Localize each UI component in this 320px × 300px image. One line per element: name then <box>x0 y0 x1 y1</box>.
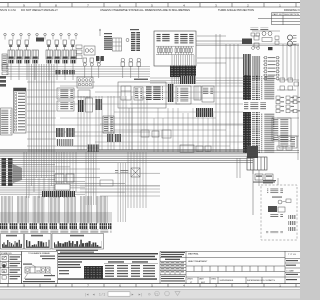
svg-text:THIRD ANGLE PROJECTION: THIRD ANGLE PROJECTION <box>218 8 254 12</box>
beacon lamps E1 E2 <box>262 32 266 36</box>
tolerance inner table <box>160 262 186 275</box>
cluster terminal bars <box>146 86 163 100</box>
stack labels <box>104 33 112 34</box>
svg-text:DATE: DATE <box>199 277 204 280</box>
wire drops into bottom connector row <box>2 196 108 224</box>
connector CN1 stacked bars <box>104 36 112 50</box>
fuse list box FL1 tall <box>14 88 27 133</box>
option box header text <box>267 188 283 194</box>
border frame outer bottom line <box>0 286 300 288</box>
fuse box label text right column <box>175 33 194 44</box>
right component box lower <box>279 136 297 148</box>
vertical drops from relay cluster to bundle <box>154 108 213 152</box>
mid boxes lower band <box>100 180 113 186</box>
svg-text:SUPERSEDES: SUPERSEDES <box>220 280 234 282</box>
relay list box left edge <box>1 108 13 135</box>
diode pack D1 <box>254 36 259 40</box>
relay bank rows right side <box>263 56 280 80</box>
ECU connector strip upper left <box>243 54 251 80</box>
vertical bundle right of web <box>128 152 146 208</box>
svg-text:|◄: |◄ <box>85 292 89 296</box>
left edge connector stack B dark <box>8 158 13 186</box>
horizontal wires middle of sheet <box>60 86 243 146</box>
bottom zone numbers <box>23 284 281 288</box>
alternator G1 with label <box>131 168 140 177</box>
label air conditioning <box>250 28 270 32</box>
ECU gap small text <box>244 102 266 110</box>
component box group right of fuse list <box>57 88 74 99</box>
connector hatch second row right group <box>55 70 75 75</box>
left auxiliary box <box>2 54 7 69</box>
connector hatch row under web <box>42 191 75 197</box>
wires upper right edge <box>252 30 280 32</box>
small parts cluster top right <box>251 33 279 50</box>
symbol row glyphs and text <box>2 256 20 279</box>
symbols table <box>0 252 22 284</box>
fuse elements group 2 <box>175 46 192 54</box>
coolant label above option box <box>263 180 276 181</box>
feature control frame cells <box>25 267 50 273</box>
option box right column parts <box>289 215 296 231</box>
hatch block above alternator <box>87 145 99 152</box>
main vertical wire bus left-centre <box>29 64 54 152</box>
small boxes lower mid cluster <box>141 130 149 137</box>
svg-text:NS IN C.C.M.: NS IN C.C.M. <box>0 8 17 12</box>
svg-text:►|: ►| <box>138 292 142 296</box>
top zone numbers <box>23 3 281 7</box>
wires from dark block down to band <box>172 77 194 84</box>
relay cluster outline box <box>118 82 166 108</box>
page edge shadow and outside area <box>0 289 300 300</box>
svg-text:T I T L E: T I T L E <box>288 254 296 256</box>
long harness wire to connector <box>196 40 242 42</box>
ECU pin label text upper <box>261 76 275 100</box>
left stack beside pump <box>76 45 82 59</box>
instrument cluster box with lamp circles <box>77 77 93 88</box>
wires joining battery area <box>252 170 254 174</box>
legend caption text below <box>56 250 98 251</box>
sensor B1 group with stems <box>83 58 101 78</box>
wire into option box <box>277 178 279 185</box>
label box in web <box>55 184 70 190</box>
left edge connector stack A dark <box>2 158 7 186</box>
horn H1 filled block <box>36 38 44 42</box>
sensor B2 group with stems <box>121 58 141 78</box>
long wires lower mid <box>80 186 160 196</box>
switch S1 group <box>9 40 28 50</box>
radiator label in option box <box>266 231 283 234</box>
switch S2 group <box>47 40 74 50</box>
border frame bottom drawing line <box>0 283 300 285</box>
fuse elements group 1 <box>158 46 173 54</box>
crossing wire web lower-left <box>0 152 160 198</box>
pump motor M1 cluster <box>84 46 95 55</box>
component below instrument cluster <box>78 90 90 97</box>
cluster label above <box>134 79 148 80</box>
ECU connector strip upper right <box>253 56 261 80</box>
connector hatch blocks lower <box>56 128 65 137</box>
main horizontal harness bundle <box>0 150 299 163</box>
viewer corner icons <box>155 291 160 296</box>
drg size cell <box>286 260 298 261</box>
wire bundle from relay bank down <box>11 63 73 80</box>
vertical drop wire right <box>252 158 254 215</box>
vertical wires below hatch block <box>86 152 96 205</box>
component row top of lower band <box>180 145 194 152</box>
harness legend box 1 <box>1 234 24 250</box>
horizontal crossing wires in bus <box>27 82 243 146</box>
left cell small print rows <box>161 252 185 253</box>
ECU main connector strip dark upper segment <box>243 75 251 100</box>
vertical pair bundle mid <box>118 163 126 222</box>
horizontal distribution wires below relays <box>6 67 150 77</box>
svg-text:▢: ▢ <box>155 292 158 296</box>
right side component field upper <box>280 78 299 90</box>
optional system dashed box <box>261 185 297 240</box>
relay K10 inside cluster <box>121 86 131 100</box>
scale cell <box>286 279 297 280</box>
svg-text:TOLERANCE FRAME: TOLERANCE FRAME <box>28 252 50 255</box>
bottom zone tick marks <box>8 284 296 287</box>
ECU secondary strip lower segment <box>252 112 260 153</box>
svg-text:►: ► <box>131 292 134 296</box>
datum and total tolerance labels <box>44 275 55 276</box>
extra connector hatch pieces <box>107 134 113 142</box>
ECU main connector strip dark lower segment <box>243 112 251 153</box>
CN2 centre gap <box>135 32 137 53</box>
bottom connector hatch row <box>0 223 112 229</box>
relay K11 inside cluster <box>134 87 143 100</box>
notes text block upper lines <box>58 253 158 260</box>
terminal box mid <box>103 116 114 133</box>
battery BT1 <box>247 157 267 170</box>
part number table top right <box>258 13 300 25</box>
legend captions <box>6 235 17 237</box>
svg-text:DO NOT WEIGHT MANUALLY: DO NOT WEIGHT MANUALLY <box>21 8 58 12</box>
svg-text:1 / 1: 1 / 1 <box>99 292 105 296</box>
fuse box FB1 outline <box>154 31 196 66</box>
left edge small stack <box>2 64 8 75</box>
right side sensor cluster mid <box>276 96 301 113</box>
harness shaded band <box>0 212 112 223</box>
connector hatch left-mid <box>78 100 84 112</box>
ECU secondary strip upper segment <box>252 75 260 100</box>
top zone tick marks <box>8 3 296 7</box>
thermostat bits in option box <box>286 199 291 203</box>
svg-text:PART NO: PART NO <box>273 13 283 16</box>
svg-text:HEAT TREATMENT: HEAT TREATMENT <box>188 260 208 263</box>
ECU pin label text lower <box>261 113 275 153</box>
notes bottom line <box>58 278 157 279</box>
view-on-arrow dark block in notes <box>84 266 103 279</box>
harness bundle under fuse box <box>150 78 243 83</box>
dark pair below pump <box>96 56 99 61</box>
general dim label <box>165 259 180 260</box>
notes sub-table headers <box>108 261 124 262</box>
relay bank K1-K8 with connector hatch strips <box>8 50 76 63</box>
notes sub-table columns <box>105 265 155 277</box>
balloon for CN2 <box>126 39 129 42</box>
connector CN2 stacked bars <box>131 32 140 51</box>
svg-text:SUPERSEDED BY: SUPERSEDED BY <box>247 280 264 282</box>
svg-text:MATERIAL: MATERIAL <box>188 253 200 256</box>
hose clip text <box>59 270 69 271</box>
relay K12 with wires <box>176 86 191 104</box>
svg-text:UNLESS OTHERWISE STATED ALL DI: UNLESS OTHERWISE STATED ALL DIMENSIONS A… <box>100 8 190 12</box>
svg-text:SYMBOLS: SYMBOLS <box>1 253 12 255</box>
flasher unit dark strip <box>168 84 174 102</box>
fuse links row below battery <box>255 174 263 180</box>
harness wedge shade <box>13 164 22 183</box>
small boxes right column bottom <box>277 146 283 150</box>
svg-text:DRWG: DRWG <box>187 278 193 280</box>
border frame inner top line <box>0 6 300 8</box>
empty cells row 1 <box>194 266 274 272</box>
tolerance at labels <box>40 256 55 257</box>
left cell bottom print rows <box>161 276 185 277</box>
resistor R1 block <box>194 86 201 100</box>
title block frame <box>160 251 300 283</box>
viewer navigation toolbar <box>85 292 158 297</box>
fuse box pin label dark block <box>170 66 196 78</box>
right edge bus wires <box>283 44 298 80</box>
svg-text:M: M <box>3 269 5 273</box>
balloon labels row callouts <box>4 33 77 39</box>
left edge connector stubs <box>0 76 6 87</box>
vertical pair from cluster <box>128 108 130 150</box>
small relay boxes in web <box>55 174 64 182</box>
harness legend box 2 <box>25 234 52 250</box>
connector hatch mid <box>95 99 102 110</box>
box beside hatch <box>86 98 93 112</box>
drawn date chkd supersedes row <box>198 277 262 284</box>
svg-text:DESCRIPTION: DESCRIPTION <box>284 14 299 16</box>
starter connector dark right <box>247 146 258 158</box>
right outlined box with rows <box>272 118 291 141</box>
svg-text:DRAWING N: DRAWING N <box>284 8 300 12</box>
inline connector CN3 dark <box>242 39 252 45</box>
tolerance frame table <box>22 252 58 284</box>
svg-text:J.C.B PART N: J.C.B PART N <box>263 279 276 282</box>
svg-text:⟳: ⟳ <box>148 292 151 296</box>
vertical drop wires centre <box>78 96 147 150</box>
svg-text:J.C.BAM: J.C.BAM <box>286 269 294 272</box>
harness legend box 3 <box>52 234 104 250</box>
hatch block below fuse box area <box>180 76 196 84</box>
component group with hatch base <box>202 86 214 102</box>
wire horizontals fuse box to right <box>197 35 226 37</box>
right side wire stubs <box>277 80 299 160</box>
notes mid-left lines <box>58 261 82 268</box>
compressor cluster in option box <box>278 200 282 204</box>
wire with arrow to fuse box <box>99 29 101 36</box>
horn H2 H3 at right edge <box>288 35 293 40</box>
wires inside fuse box to bottom edge <box>172 55 194 66</box>
border frame outer top line <box>0 2 300 4</box>
svg-text:CHKD: CHKD <box>211 278 217 280</box>
fuse box label text left column <box>157 33 172 42</box>
relay box K9 grid <box>113 38 122 51</box>
leader lines <box>32 265 36 267</box>
svg-text:◄: ◄ <box>92 292 95 296</box>
connector id text row <box>1 230 112 233</box>
mid bus vertical wires <box>216 34 238 152</box>
